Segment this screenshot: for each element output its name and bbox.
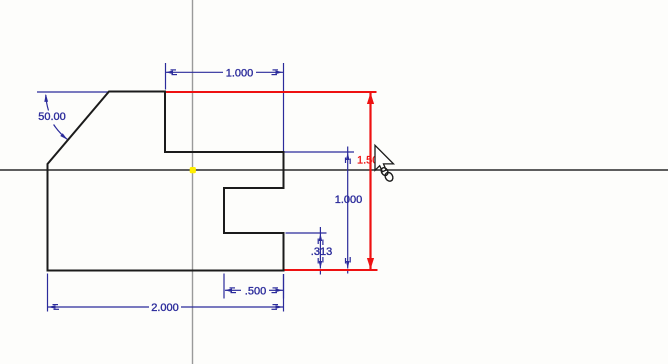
dimension .500: dimension line bbox=[225, 289, 283, 291]
red dimension 1.50: bottom extension line bbox=[283, 269, 378, 271]
dimension 1.000 top: dimension line bbox=[166, 71, 283, 73]
dimension 2.000: extension lines bbox=[48, 274, 284, 312]
mouse cursor arrow bbox=[375, 145, 394, 171]
svg-text:2.000: 2.000 bbox=[151, 302, 179, 314]
dimension .500: arrowheads bbox=[225, 287, 284, 293]
dimension 1.000 vertical: extension line bbox=[284, 151, 354, 153]
dimension 2.000: dimension line bbox=[48, 306, 283, 308]
origin point (yellow) bbox=[190, 167, 196, 173]
angle dimension 50.00: horizontal reference line bbox=[37, 91, 108, 93]
svg-text:50.00: 50.00 bbox=[38, 111, 66, 123]
red dimension 1.50: top extension line bbox=[164, 91, 377, 93]
svg-text:1.000: 1.000 bbox=[335, 194, 363, 206]
dimension 1.000 vertical: arrowheads bbox=[345, 153, 351, 269]
red dimension 1.50: arrowheads bbox=[367, 93, 374, 269]
svg-text:.500: .500 bbox=[245, 285, 266, 297]
red dimension 1.50: dimension line bbox=[369, 93, 371, 269]
dimension .313: arrowheads bbox=[318, 234, 324, 269]
svg-text:.313: .313 bbox=[311, 246, 332, 258]
mouse cursor loop glyph bbox=[380, 166, 395, 182]
dimension .313: extension line bbox=[286, 232, 327, 234]
dimension 2.000: arrowheads bbox=[48, 304, 283, 310]
Y axis (vertical gray centerline) bbox=[192, 0, 194, 364]
profile outline of part bbox=[48, 92, 284, 271]
dimension 1.000 top: arrowheads bbox=[166, 69, 284, 75]
dimension .500: extension lines bbox=[224, 274, 284, 299]
angle dimension 50.00: arrowheads bbox=[44, 94, 67, 140]
dimension .313: dimension line with overhangs bbox=[319, 227, 321, 275]
X axis (horizontal dark centerline) bbox=[0, 169, 668, 171]
dimension 1.000 vertical: dimension line with overhangs bbox=[347, 147, 349, 274]
dimension 1.000 top: extension lines bbox=[166, 63, 284, 151]
svg-text:1.000: 1.000 bbox=[226, 67, 254, 79]
angle dimension 50.00: arc bbox=[46, 95, 49, 111]
